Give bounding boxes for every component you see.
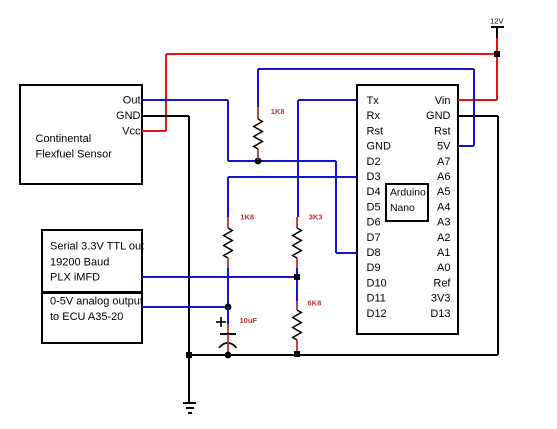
wire red Vcc stub <box>142 130 166 132</box>
svg-text:A3: A3 <box>437 217 450 229</box>
svg-text:D3: D3 <box>367 171 381 183</box>
svg-text:D13: D13 <box>430 308 450 320</box>
svg-text:1K8: 1K8 <box>240 213 254 222</box>
wire blue 5V vertical <box>473 69 475 146</box>
svg-text:D11: D11 <box>367 293 386 305</box>
wire blue 5V horizontal top <box>258 68 474 70</box>
svg-text:Vcc: Vcc <box>122 125 141 137</box>
svg-text:1K8: 1K8 <box>271 107 285 116</box>
svg-text:A2: A2 <box>437 232 450 244</box>
svg-text:D12: D12 <box>367 308 387 320</box>
svg-text:to ECU A35-20: to ECU A35-20 <box>50 311 123 323</box>
ECU analog output note box <box>42 293 143 343</box>
svg-text:Rx: Rx <box>367 110 381 122</box>
svg-text:D4: D4 <box>367 186 381 198</box>
svg-text:12V: 12V <box>490 17 503 26</box>
wire black GND sensor stub <box>142 115 189 117</box>
node R1 bottom junction <box>255 158 262 165</box>
svg-text:19200 Baud: 19200 Baud <box>50 257 109 269</box>
wire 12V red vertical to Vin row <box>496 38 498 100</box>
svg-text:A1: A1 <box>437 247 450 259</box>
resistor R2 1K8 <box>224 213 254 269</box>
svg-text:A6: A6 <box>437 171 450 183</box>
wire blue horizontal under R1 <box>228 160 336 162</box>
svg-text:PLX iMFD: PLX iMFD <box>50 272 100 284</box>
Arduino Nano inner label box <box>386 184 428 221</box>
svg-text:Nano: Nano <box>390 203 415 214</box>
wire blue Tx stub <box>298 99 357 101</box>
wire red Vin stub <box>458 99 497 101</box>
Continental Flexfuel Sensor box <box>20 85 142 184</box>
svg-text:Vin: Vin <box>435 95 451 107</box>
svg-text:Flexfuel Sensor: Flexfuel Sensor <box>36 149 113 161</box>
wire blue PLX serial horizontal <box>142 276 297 278</box>
svg-text:5V: 5V <box>437 141 451 153</box>
node 6K8 ground junction <box>294 351 300 357</box>
wire blue 6K8 top <box>296 277 298 301</box>
node 12V junction <box>494 51 500 57</box>
svg-text:D6: D6 <box>367 217 381 229</box>
svg-text:A7: A7 <box>437 156 450 168</box>
svg-text:Continental: Continental <box>36 133 92 145</box>
wire blue Out stub <box>142 99 228 101</box>
node ground rail left junction <box>186 352 192 358</box>
wire blue D3 vertical to R2 <box>227 177 229 217</box>
resistor R1 1K8 <box>254 107 285 160</box>
svg-text:D2: D2 <box>367 156 381 168</box>
svg-text:GND: GND <box>367 141 392 153</box>
svg-text:D9: D9 <box>367 262 381 274</box>
svg-text:6K8: 6K8 <box>308 298 322 307</box>
node divider junction <box>294 274 300 280</box>
svg-text:Tx: Tx <box>367 95 380 107</box>
wire black right vertical to Arduino GND <box>497 116 499 355</box>
svg-text:3V3: 3V3 <box>431 293 451 305</box>
svg-text:10uF: 10uF <box>240 316 258 325</box>
node analog out junction <box>225 304 232 311</box>
capacitor C1 10uF <box>216 307 257 355</box>
wire blue vertical to D8 row <box>335 161 337 253</box>
ground symbol <box>183 403 196 413</box>
svg-text:A0: A0 <box>437 262 450 274</box>
svg-text:Rst: Rst <box>367 125 384 137</box>
svg-text:Serial 3.3V TTL out: Serial 3.3V TTL out <box>50 241 144 253</box>
svg-text:GND: GND <box>426 110 451 122</box>
svg-text:D7: D7 <box>367 232 381 244</box>
wire black ground stem vertical <box>188 116 190 403</box>
wire blue D8 stub <box>336 252 357 254</box>
wire blue D3 stub <box>228 176 357 178</box>
wire blue 5V stub <box>458 145 474 147</box>
wire blue 0-5V analog output <box>142 306 228 308</box>
node capacitor ground junction <box>225 352 232 359</box>
12V supply symbol <box>490 17 504 39</box>
wire blue R3 bottom to junction <box>296 268 298 277</box>
wire black Arduino GND stub <box>458 115 498 117</box>
wire blue Out vertical <box>227 100 229 161</box>
svg-text:D8: D8 <box>367 247 381 259</box>
wire red 12V horizontal top <box>166 53 497 55</box>
wire blue R1 top vertical <box>257 69 259 107</box>
svg-text:A5: A5 <box>437 186 450 198</box>
Serial PLX iMFD note box <box>42 230 144 292</box>
svg-text:0-5V analog output: 0-5V analog output <box>50 296 143 308</box>
wire blue R2 bottom vertical to capacitor <box>227 268 229 324</box>
svg-text:Rst: Rst <box>434 125 451 137</box>
resistor R3 3K3 <box>293 213 323 269</box>
svg-text:Arduino: Arduino <box>390 188 426 199</box>
wire black ground rail horizontal <box>189 354 498 356</box>
svg-text:D5: D5 <box>367 201 381 213</box>
svg-text:GND: GND <box>116 110 141 122</box>
svg-text:D10: D10 <box>367 277 387 289</box>
svg-text:Out: Out <box>123 95 141 107</box>
Arduino Nano U1 box <box>357 85 458 334</box>
wire blue Tx vertical to R3 <box>297 100 299 217</box>
svg-text:3K3: 3K3 <box>309 213 323 222</box>
svg-text:Ref: Ref <box>433 277 451 289</box>
svg-text:A4: A4 <box>437 201 450 213</box>
wire red down to Vcc <box>165 54 167 131</box>
resistor R4 6K8 <box>293 298 322 352</box>
